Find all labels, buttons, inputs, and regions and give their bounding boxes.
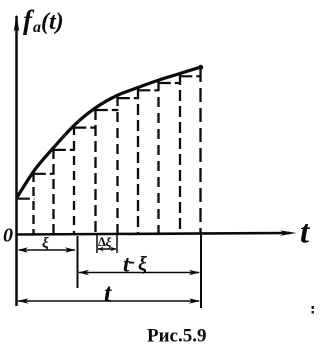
staircase verticals (dashed) (34, 68, 201, 234)
svg-text:Рис.5.9: Рис.5.9 (147, 326, 207, 347)
xi dimension (18, 247, 76, 252)
svg-text:a: a (33, 19, 41, 36)
x-axis (16, 230, 297, 235)
extension line below axis at x=201 (200, 233, 202, 308)
svg-text:t: t (300, 215, 310, 251)
svg-text:-: - (129, 251, 136, 273)
svg-text:(t): (t) (41, 9, 64, 35)
delta-xi dimension (98, 247, 117, 251)
y-axis (14, 14, 19, 306)
svg-text:t: t (104, 279, 112, 308)
scan speck (312, 306, 315, 309)
t-xi dimension (78, 270, 200, 276)
svg-text:ξ: ξ (106, 235, 112, 250)
svg-text:ξ: ξ (138, 253, 147, 275)
svg-text:0: 0 (3, 225, 13, 247)
svg-text:ξ: ξ (42, 236, 49, 252)
staircase steps (dashed horizontals) (18, 76, 202, 198)
curve f_a(t) (18, 67, 202, 197)
delta-xi extension ticks (96, 234, 98, 253)
extension line below axis at x=77.5 (77, 236, 79, 288)
t dimension (18, 298, 201, 304)
